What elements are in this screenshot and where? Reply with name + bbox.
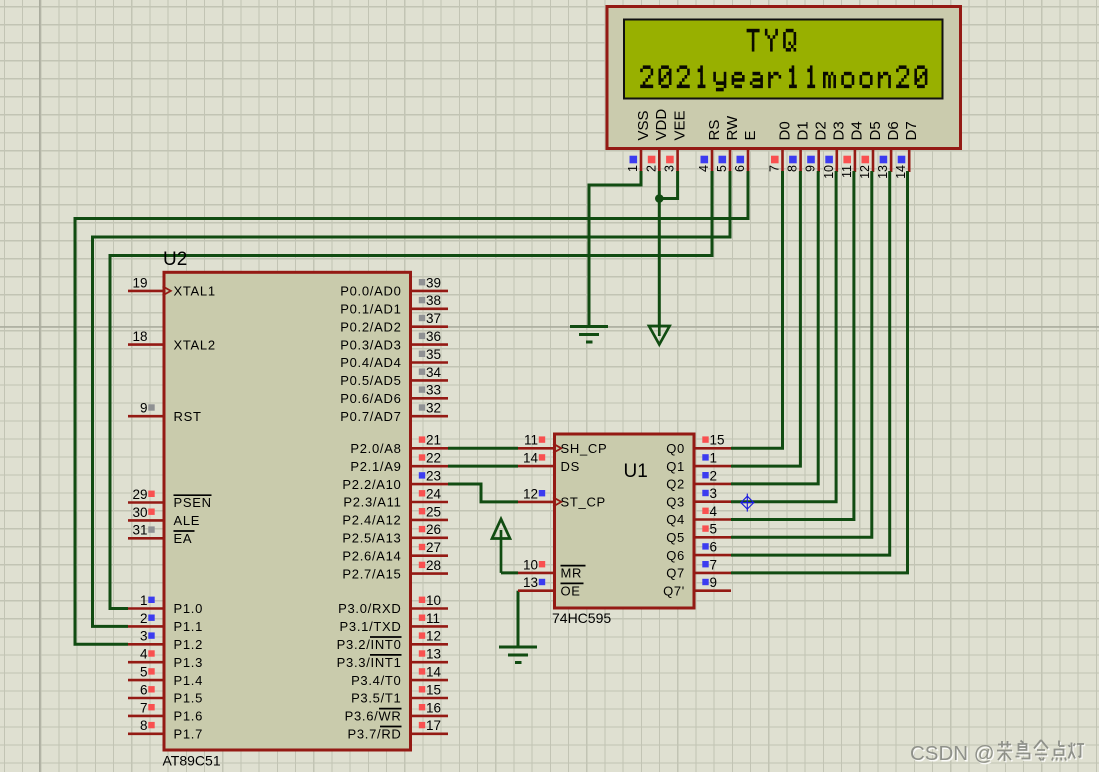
wire VEE LCD pin3 to VDD net	[659, 171, 677, 199]
svg-text:U2: U2	[163, 249, 187, 270]
svg-text:37: 37	[426, 311, 441, 326]
svg-text:P0.1/AD1: P0.1/AD1	[340, 302, 401, 317]
svg-text:P3.0/RXD: P3.0/RXD	[338, 601, 401, 616]
svg-text:14: 14	[523, 451, 539, 466]
wire U1 OE to ground	[517, 591, 520, 647]
wire D6 LCD pin13 to U1 Q6	[731, 171, 890, 555]
svg-text:SH_CP: SH_CP	[561, 441, 608, 456]
svg-text:XTAL1: XTAL1	[174, 284, 216, 299]
U2 pin 11 P3.1/TXD	[340, 611, 448, 634]
svg-text:D5: D5	[867, 121, 884, 140]
svg-text:OE: OE	[561, 583, 581, 598]
U2 pin 6 P1.5	[128, 682, 203, 705]
svg-text:DS: DS	[561, 459, 580, 474]
svg-text:Q0: Q0	[666, 441, 685, 456]
LCD pin 7 D0	[768, 121, 794, 172]
svg-text:P0.6/AD6: P0.6/AD6	[340, 391, 401, 406]
svg-text:28: 28	[426, 558, 441, 573]
svg-text:Q7': Q7'	[663, 583, 685, 598]
svg-text:5: 5	[715, 165, 729, 172]
wire D0 LCD pin7 to U1 Q0	[731, 171, 783, 448]
U1 pin 3 Q3	[666, 486, 731, 509]
svg-text:P0.7/AD7: P0.7/AD7	[340, 409, 401, 424]
U2 pin 24 P2.3/A11	[343, 486, 448, 509]
U2 pin 21 P2.0/A8	[350, 433, 448, 456]
mouse crosshair cursor	[740, 494, 754, 512]
svg-text:P2.4/A12: P2.4/A12	[342, 513, 401, 528]
U1 pin 10 MR	[518, 557, 586, 580]
svg-text:74HC595: 74HC595	[552, 610, 611, 626]
U2 pin 37 P0.2/AD2	[340, 311, 448, 334]
svg-text:P0.2/AD2: P0.2/AD2	[340, 319, 401, 334]
svg-text:12: 12	[523, 486, 538, 501]
svg-text:P0.0/AD0: P0.0/AD0	[340, 284, 401, 299]
svg-text:11: 11	[840, 165, 854, 178]
U2 AT89C51 body	[164, 272, 411, 750]
svg-text:P1.7: P1.7	[174, 727, 204, 742]
U1 pin 2 Q2	[666, 468, 731, 491]
LCD pin 11 D4	[840, 121, 866, 178]
U2 pin 9 RST	[128, 401, 202, 424]
svg-text:8: 8	[786, 165, 800, 172]
U2 pin 26 P2.5/A13	[342, 522, 448, 545]
U2 pin 33 P0.6/AD6	[340, 383, 448, 406]
U2 pin 5 P1.4	[128, 665, 203, 688]
svg-text:31: 31	[132, 523, 147, 538]
svg-text:Q7: Q7	[666, 566, 685, 581]
svg-text:P3.1/TXD: P3.1/TXD	[340, 619, 402, 634]
svg-text:7: 7	[768, 165, 782, 172]
LCD pin 1 VSS	[626, 110, 652, 172]
U2 pin 34 P0.5/AD5	[340, 365, 448, 388]
svg-text:P3.4/T0: P3.4/T0	[351, 673, 401, 688]
U2 pin 17 P3.7/RD	[347, 718, 448, 741]
svg-text:Q1: Q1	[666, 459, 685, 474]
svg-text:3: 3	[663, 165, 677, 172]
wire D7 LCD pin14 to U1 Q7	[731, 171, 908, 573]
svg-text:16: 16	[426, 700, 441, 715]
svg-text:P3.5/T1: P3.5/T1	[351, 691, 401, 706]
U1 pin 1 Q1	[666, 451, 731, 474]
svg-text:29: 29	[132, 487, 147, 502]
svg-text:P0.5/AD5: P0.5/AD5	[340, 373, 401, 388]
svg-text:34: 34	[426, 365, 442, 380]
svg-text:D1: D1	[794, 121, 811, 140]
svg-text:19: 19	[132, 275, 147, 290]
svg-text:17: 17	[426, 718, 441, 733]
svg-text:P2.1/A9: P2.1/A9	[350, 459, 401, 474]
svg-text:Q4: Q4	[666, 512, 685, 527]
U1 pin 7 Q7	[666, 557, 731, 580]
LCD pin 6 E	[733, 130, 759, 172]
U1 pin 12 ST_CP	[518, 486, 606, 509]
svg-text:P1.2: P1.2	[174, 637, 204, 652]
wire RS LCD pin4 to U2 P1.0	[110, 171, 712, 609]
svg-text:27: 27	[426, 540, 441, 555]
LCD text line 1 TYQ	[747, 29, 760, 33]
U2 pin 18 XTAL2	[128, 329, 216, 352]
U1 pin 6 Q6	[666, 540, 731, 563]
U2 pin 36 P0.3/AD3	[340, 329, 448, 352]
svg-text:RST: RST	[174, 409, 202, 424]
svg-text:P3.2/INT0: P3.2/INT0	[337, 637, 402, 652]
svg-text:D3: D3	[831, 121, 848, 140]
svg-text:10: 10	[426, 593, 441, 608]
LCD pin 2 VDD	[644, 109, 670, 172]
svg-text:D4: D4	[849, 121, 866, 140]
svg-text:P1.0: P1.0	[174, 601, 204, 616]
wire VDD LCD pin2 down to arrow terminal	[658, 171, 661, 326]
svg-text:P2.6/A14: P2.6/A14	[342, 548, 401, 563]
U2 pin 27 P2.6/A14	[342, 540, 448, 563]
svg-text:36: 36	[426, 329, 441, 344]
svg-text:D0: D0	[776, 121, 793, 140]
svg-text:Q2: Q2	[666, 477, 685, 492]
svg-text:15: 15	[426, 682, 441, 697]
wire power to U1 MR	[501, 571, 518, 574]
U2 pin 35 P0.4/AD4	[340, 347, 448, 370]
U2 pin 22 P2.1/A9	[350, 451, 448, 474]
wire D5 LCD pin12 to U1 Q5	[731, 171, 872, 537]
svg-text:10: 10	[822, 165, 836, 179]
U2 pin 19 XTAL1	[128, 275, 216, 298]
LCD pin 3 VEE	[663, 110, 689, 172]
junction dot VDD/VEE	[655, 194, 664, 203]
svg-text:P1.5: P1.5	[174, 691, 204, 706]
U2 pin 29 PSEN	[128, 487, 212, 510]
svg-text:P0.4/AD4: P0.4/AD4	[340, 355, 401, 370]
svg-text:1: 1	[710, 451, 718, 466]
U2 pin 25 P2.4/A12	[342, 504, 448, 527]
svg-text:VDD: VDD	[653, 109, 670, 141]
U1 74HC595 body	[555, 434, 695, 608]
svg-text:10: 10	[523, 557, 538, 572]
svg-text:2: 2	[710, 468, 718, 483]
svg-text:P2.5/A13: P2.5/A13	[342, 531, 401, 546]
svg-text:Q6: Q6	[666, 548, 685, 563]
svg-text:PSEN: PSEN	[174, 495, 212, 510]
svg-text:30: 30	[132, 505, 147, 520]
svg-text:26: 26	[426, 522, 441, 537]
wire D2 LCD pin9 to U1 Q2	[731, 171, 818, 484]
U2 pin 13 P3.3/INT1	[337, 647, 448, 670]
U2 pin 38 P0.1/AD1	[340, 293, 448, 316]
svg-text:Q5: Q5	[666, 530, 685, 545]
wire D3 LCD pin10 to U1 Q3	[731, 171, 836, 502]
svg-text:MR: MR	[561, 566, 583, 581]
svg-text:6: 6	[733, 165, 747, 172]
U2 pin 8 P1.7	[128, 718, 203, 741]
svg-text:ST_CP: ST_CP	[561, 495, 606, 510]
svg-text:9: 9	[710, 575, 718, 590]
U2 pin 32 P0.7/AD7	[340, 401, 448, 424]
svg-text:P2.3/A11: P2.3/A11	[343, 495, 401, 510]
svg-text:23: 23	[426, 469, 441, 484]
svg-text:13: 13	[876, 165, 890, 179]
U2 pin 23 P2.2/A10	[342, 469, 448, 492]
svg-text:P1.1: P1.1	[174, 619, 204, 634]
svg-text:RS: RS	[706, 120, 723, 141]
svg-text:P3.3/INT1: P3.3/INT1	[337, 655, 402, 670]
svg-text:VEE: VEE	[671, 110, 688, 140]
U2 pin 7 P1.6	[128, 700, 203, 723]
svg-text:Q3: Q3	[666, 494, 685, 509]
svg-text:11: 11	[426, 611, 440, 626]
svg-text:12: 12	[426, 629, 441, 644]
LCD module LCD1 body	[607, 7, 961, 149]
svg-text:1: 1	[626, 165, 640, 172]
U2 pin 4 P1.3	[128, 647, 203, 670]
svg-text:15: 15	[710, 433, 725, 448]
svg-text:25: 25	[426, 504, 441, 519]
svg-text:P2.2/A10: P2.2/A10	[342, 477, 401, 492]
svg-text:D6: D6	[885, 121, 902, 140]
U2 pin 30 ALE	[128, 505, 200, 528]
U2 pin 2 P1.1	[128, 611, 203, 634]
svg-text:P2.0/A8: P2.0/A8	[350, 441, 401, 456]
svg-text:22: 22	[426, 451, 441, 466]
arrow terminal on VDD net	[649, 326, 670, 345]
LCD pin 13 D6	[876, 121, 902, 179]
svg-text:13: 13	[523, 575, 538, 590]
LCD text line 2 2021year11moon20	[643, 65, 651, 69]
LCD pin 8 D1	[786, 121, 812, 172]
svg-text:9: 9	[804, 165, 818, 172]
wire E LCD pin6 to U2 P1.2	[75, 171, 748, 644]
svg-text:9: 9	[140, 401, 148, 416]
svg-text:U1: U1	[624, 461, 648, 482]
svg-text:ALE: ALE	[174, 513, 201, 528]
power +V arrow terminal	[492, 519, 510, 539]
ground symbol GND1	[570, 327, 608, 343]
svg-text:21: 21	[426, 433, 441, 448]
U2 pin 1 P1.0	[128, 593, 203, 616]
ground symbol GND2	[499, 647, 537, 663]
U2 pin 14 P3.4/T0	[351, 665, 448, 688]
svg-text:P1.3: P1.3	[174, 655, 204, 670]
wire U2 P2.2 to U1 ST_CP	[448, 484, 518, 502]
svg-text:P0.3/AD3: P0.3/AD3	[340, 337, 401, 352]
U1 pin 5 Q5	[666, 522, 731, 545]
svg-text:33: 33	[426, 383, 441, 398]
LCD pin 9 D2	[804, 121, 830, 172]
svg-text:3: 3	[710, 486, 718, 501]
svg-text:CSDN @: CSDN @	[910, 742, 995, 765]
watermark chinese characters	[998, 741, 1085, 762]
svg-text:P3.7/RD: P3.7/RD	[347, 727, 401, 742]
U2 pin 28 P2.7/A15	[342, 558, 448, 581]
svg-text:EA: EA	[174, 531, 193, 546]
svg-text:1: 1	[140, 593, 148, 608]
svg-text:RW: RW	[724, 115, 741, 141]
svg-text:P2.7/A15: P2.7/A15	[342, 566, 401, 581]
wire D4 LCD pin11 to U1 Q4	[731, 171, 854, 520]
svg-text:5: 5	[710, 522, 718, 537]
U1 pin 15 Q0	[666, 433, 731, 456]
U1 pin 14 DS	[518, 451, 580, 474]
U1 pin 13 OE	[518, 575, 584, 598]
U1 pin 9 Q7'	[663, 575, 731, 598]
svg-text:AT89C51: AT89C51	[163, 753, 221, 769]
svg-text:8: 8	[140, 718, 148, 733]
svg-text:P3.6/WR: P3.6/WR	[345, 709, 402, 724]
U1 pin 11 SH_CP	[518, 433, 607, 456]
svg-text:7: 7	[140, 700, 148, 715]
LCD screen	[624, 20, 943, 99]
wire U2 P2.1 to U1 DS	[448, 465, 518, 468]
svg-text:14: 14	[426, 665, 442, 680]
svg-text:D7: D7	[903, 121, 920, 140]
U2 pin 31 EA	[128, 523, 195, 546]
svg-text:D2: D2	[813, 121, 830, 140]
svg-text:6: 6	[710, 540, 718, 555]
svg-text:24: 24	[426, 486, 442, 501]
U2 pin 16 P3.6/WR	[345, 700, 448, 723]
LCD pin 14 D7	[894, 121, 920, 179]
LCD pin 4 RS	[697, 120, 723, 172]
svg-text:2: 2	[644, 165, 658, 172]
U1 pin 4 Q4	[666, 504, 731, 527]
svg-text:XTAL2: XTAL2	[174, 337, 216, 352]
svg-text:4: 4	[710, 504, 718, 519]
svg-text:39: 39	[426, 275, 441, 290]
svg-text:5: 5	[140, 665, 148, 680]
svg-text:VSS: VSS	[635, 110, 652, 140]
LCD pin 10 D3	[822, 121, 848, 179]
U2 pin 3 P1.2	[128, 629, 203, 652]
svg-text:38: 38	[426, 293, 441, 308]
U2 pin 15 P3.5/T1	[351, 682, 448, 705]
svg-text:2: 2	[140, 611, 148, 626]
wire VSS LCD pin1 to ground	[589, 171, 641, 327]
LCD pin 5 RW	[715, 115, 741, 172]
wire D1 LCD pin8 to U1 Q1	[731, 171, 800, 466]
wire U2 P2.0 to U1 SH_CP	[448, 447, 518, 450]
svg-text:35: 35	[426, 347, 441, 362]
svg-text:4: 4	[140, 647, 148, 662]
LCD pin 12 D5	[858, 121, 884, 179]
svg-text:18: 18	[132, 329, 147, 344]
U2 pin 12 P3.2/INT0	[337, 629, 448, 652]
svg-text:11: 11	[524, 433, 538, 448]
svg-text:P1.6: P1.6	[174, 709, 204, 724]
svg-text:7: 7	[710, 557, 718, 572]
U2 pin 39 P0.0/AD0	[340, 275, 448, 298]
svg-text:12: 12	[858, 165, 872, 179]
U2 pin 10 P3.0/RXD	[338, 593, 448, 616]
svg-text:4: 4	[697, 165, 711, 172]
svg-text:P1.4: P1.4	[174, 673, 204, 688]
svg-text:E: E	[742, 130, 759, 140]
wire RW LCD pin5 to U2 P1.1	[93, 171, 731, 626]
svg-text:3: 3	[140, 629, 148, 644]
svg-text:6: 6	[140, 682, 148, 697]
svg-text:13: 13	[426, 647, 441, 662]
svg-text:32: 32	[426, 401, 441, 416]
